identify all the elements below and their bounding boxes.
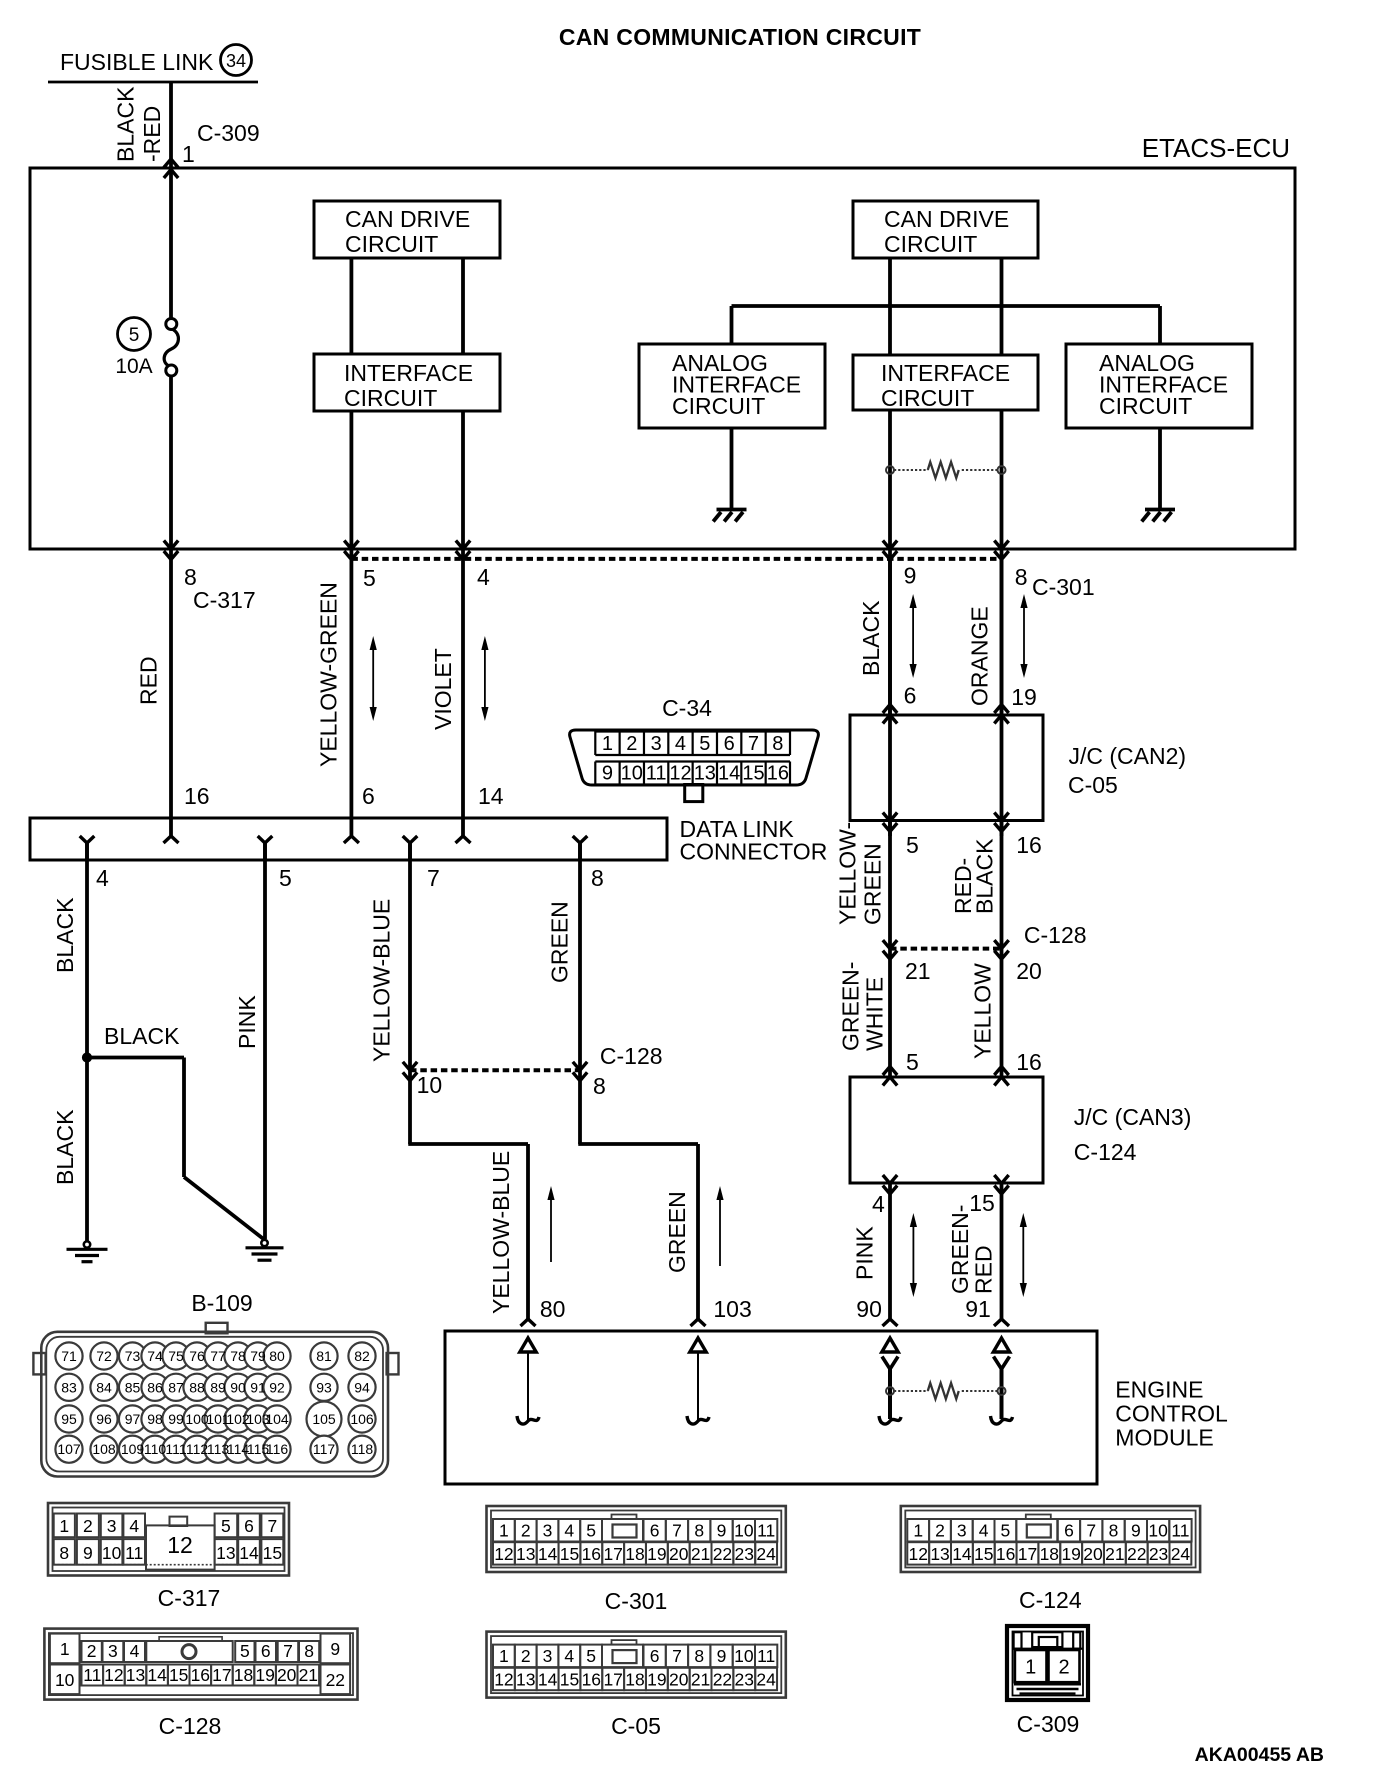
svg-text:5: 5 [906,1049,919,1075]
svg-text:18: 18 [625,1544,644,1564]
svg-text:10A: 10A [115,355,152,378]
svg-text:104: 104 [265,1411,289,1427]
svg-text:99: 99 [168,1411,184,1427]
svg-text:5: 5 [699,733,710,755]
svg-text:76: 76 [189,1348,205,1364]
svg-text:93: 93 [316,1379,332,1395]
svg-text:C-317: C-317 [193,587,256,613]
svg-text:C-301: C-301 [605,1588,668,1614]
svg-text:5: 5 [906,832,919,858]
svg-text:15: 15 [742,763,764,785]
svg-text:WHITE: WHITE [862,977,888,1051]
svg-text:84: 84 [96,1379,112,1395]
svg-text:CIRCUIT: CIRCUIT [345,231,438,257]
svg-text:13: 13 [126,1665,145,1685]
svg-text:20: 20 [669,1670,689,1690]
svg-text:4: 4 [96,865,109,891]
svg-text:80: 80 [540,1296,566,1322]
svg-text:74: 74 [147,1348,163,1364]
svg-text:10: 10 [417,1072,443,1098]
svg-text:13: 13 [930,1544,949,1564]
svg-text:9: 9 [330,1639,340,1659]
svg-text:1: 1 [59,1516,69,1536]
svg-text:98: 98 [147,1411,163,1427]
svg-text:112: 112 [186,1441,209,1457]
svg-text:5: 5 [586,1521,596,1541]
svg-text:14: 14 [478,783,504,809]
svg-text:73: 73 [125,1348,141,1364]
svg-text:6: 6 [1064,1521,1074,1541]
svg-text:YELLOW: YELLOW [969,963,995,1059]
svg-text:83: 83 [61,1379,77,1395]
svg-text:15: 15 [560,1544,579,1564]
svg-text:88: 88 [189,1379,205,1395]
svg-text:C-309: C-309 [1017,1711,1080,1737]
svg-text:J/C (CAN3): J/C (CAN3) [1074,1104,1192,1130]
svg-text:10: 10 [1148,1521,1168,1541]
svg-text:79: 79 [250,1348,266,1364]
svg-text:21: 21 [691,1670,710,1690]
svg-text:14: 14 [538,1670,558,1690]
svg-text:GREEN: GREEN [664,1191,690,1273]
svg-text:12: 12 [494,1544,513,1564]
svg-text:107: 107 [57,1441,81,1457]
svg-text:105: 105 [312,1411,336,1427]
svg-text:PINK: PINK [852,1226,878,1280]
svg-text:C-317: C-317 [158,1585,221,1611]
svg-text:1: 1 [499,1521,509,1541]
svg-text:9: 9 [83,1543,93,1563]
svg-text:17: 17 [603,1670,622,1690]
svg-text:19: 19 [647,1544,666,1564]
svg-text:18: 18 [234,1665,253,1685]
svg-text:8: 8 [694,1646,704,1666]
svg-text:1: 1 [499,1646,509,1666]
svg-text:1: 1 [602,733,613,755]
svg-text:111: 111 [165,1441,186,1457]
svg-text:13: 13 [216,1543,235,1563]
svg-text:3: 3 [543,1521,553,1541]
svg-text:13: 13 [516,1670,535,1690]
svg-text:2: 2 [521,1646,531,1666]
svg-text:82: 82 [354,1348,370,1364]
svg-text:2: 2 [83,1516,93,1536]
svg-text:22: 22 [326,1670,345,1690]
svg-text:10: 10 [55,1670,75,1690]
svg-text:12: 12 [669,763,691,785]
svg-text:PINK: PINK [234,995,260,1049]
svg-text:23: 23 [735,1544,754,1564]
svg-text:4: 4 [675,733,686,755]
svg-text:4: 4 [564,1646,574,1666]
svg-text:8: 8 [694,1521,704,1541]
svg-text:CIRCUIT: CIRCUIT [881,385,974,411]
svg-text:B-109: B-109 [191,1290,252,1316]
svg-text:13: 13 [694,763,716,785]
svg-text:21: 21 [691,1544,710,1564]
svg-text:C-05: C-05 [611,1713,661,1739]
svg-text:103: 103 [713,1296,751,1322]
svg-text:CIRCUIT: CIRCUIT [344,385,437,411]
svg-text:90: 90 [856,1296,882,1322]
svg-text:BLACK: BLACK [113,86,139,162]
svg-text:71: 71 [61,1348,77,1364]
svg-text:7: 7 [267,1516,277,1536]
svg-text:14: 14 [147,1665,167,1685]
svg-text:BLACK: BLACK [858,600,884,676]
svg-text:ENGINE: ENGINE [1115,1377,1203,1403]
svg-text:CONTROL: CONTROL [1115,1401,1228,1427]
svg-text:17: 17 [212,1665,231,1685]
svg-text:86: 86 [147,1379,163,1395]
svg-text:2: 2 [626,733,637,755]
svg-text:GREEN: GREEN [547,901,573,983]
svg-text:118: 118 [351,1441,374,1457]
svg-text:4: 4 [564,1521,574,1541]
svg-text:116: 116 [266,1441,289,1457]
svg-text:4: 4 [130,1641,140,1661]
svg-text:24: 24 [1171,1544,1191,1564]
svg-text:11: 11 [646,763,667,785]
svg-text:16: 16 [184,783,210,809]
svg-text:6: 6 [650,1521,660,1541]
svg-text:16: 16 [582,1544,601,1564]
svg-text:110: 110 [144,1441,167,1457]
svg-text:8: 8 [593,1073,606,1099]
svg-text:7: 7 [283,1641,293,1661]
svg-text:BLACK: BLACK [52,1109,78,1185]
svg-text:80: 80 [269,1348,285,1364]
svg-text:ETACS-ECU: ETACS-ECU [1142,133,1290,163]
svg-text:20: 20 [1083,1544,1103,1564]
svg-text:14: 14 [952,1544,972,1564]
svg-text:24: 24 [756,1544,776,1564]
svg-text:16: 16 [191,1665,210,1685]
svg-text:16: 16 [1016,832,1042,858]
svg-text:9: 9 [717,1646,727,1666]
svg-text:C-128: C-128 [600,1043,663,1069]
svg-text:7: 7 [748,733,759,755]
svg-text:12: 12 [104,1665,123,1685]
svg-text:11: 11 [757,1521,775,1541]
svg-text:1: 1 [60,1639,70,1659]
svg-text:18: 18 [1040,1544,1059,1564]
svg-text:1: 1 [1025,1657,1036,1679]
svg-text:19: 19 [255,1665,274,1685]
svg-text:12: 12 [494,1670,513,1690]
svg-text:15: 15 [263,1543,282,1563]
svg-text:3: 3 [108,1641,118,1661]
svg-text:YELLOW-BLUE: YELLOW-BLUE [488,1151,514,1314]
svg-text:C-301: C-301 [1032,574,1095,600]
svg-text:9: 9 [602,763,613,785]
svg-text:22: 22 [1127,1544,1146,1564]
svg-text:1: 1 [913,1521,923,1541]
svg-text:12: 12 [908,1544,927,1564]
svg-text:19: 19 [647,1670,666,1690]
svg-text:6: 6 [362,783,375,809]
svg-text:87: 87 [168,1379,184,1395]
svg-text:9: 9 [1131,1521,1141,1541]
svg-text:16: 16 [996,1544,1015,1564]
svg-text:22: 22 [713,1544,732,1564]
svg-text:J/C (CAN2): J/C (CAN2) [1069,743,1187,769]
svg-text:2: 2 [935,1521,945,1541]
svg-text:24: 24 [756,1670,776,1690]
svg-text:C-34: C-34 [662,695,712,721]
svg-text:19: 19 [1011,684,1037,710]
svg-text:3: 3 [107,1516,117,1536]
svg-text:3: 3 [543,1646,553,1666]
svg-text:10: 10 [102,1543,122,1563]
svg-text:RED: RED [136,656,162,705]
svg-text:75: 75 [168,1348,184,1364]
svg-text:16: 16 [582,1670,601,1690]
svg-text:16: 16 [1016,1049,1042,1075]
svg-text:C-05: C-05 [1068,772,1118,798]
svg-text:23: 23 [1149,1544,1168,1564]
svg-text:20: 20 [669,1544,689,1564]
svg-text:16: 16 [767,763,789,785]
svg-text:CIRCUIT: CIRCUIT [884,231,977,257]
svg-text:CAN DRIVE: CAN DRIVE [884,206,1009,232]
svg-text:CONNECTOR: CONNECTOR [680,839,828,865]
svg-text:95: 95 [61,1411,77,1427]
svg-text:85: 85 [125,1379,141,1395]
svg-text:AKA00455 AB: AKA00455 AB [1195,1744,1324,1766]
svg-text:72: 72 [96,1348,112,1364]
svg-text:34: 34 [226,51,246,71]
svg-text:C-124: C-124 [1019,1587,1082,1613]
svg-text:5: 5 [221,1516,231,1536]
svg-text:8: 8 [591,865,604,891]
svg-text:4: 4 [477,564,490,590]
svg-text:109: 109 [121,1441,145,1457]
svg-text:CAN DRIVE: CAN DRIVE [345,206,470,232]
svg-text:C-128: C-128 [159,1713,222,1739]
svg-text:10: 10 [734,1521,754,1541]
svg-text:7: 7 [427,865,440,891]
svg-text:6: 6 [724,733,735,755]
svg-text:106: 106 [350,1411,374,1427]
svg-text:108: 108 [92,1441,116,1457]
svg-text:3: 3 [651,733,662,755]
svg-text:15: 15 [974,1544,993,1564]
svg-text:20: 20 [1016,958,1042,984]
svg-text:CAN COMMUNICATION CIRCUIT: CAN COMMUNICATION CIRCUIT [559,24,921,50]
svg-text:5: 5 [129,325,140,346]
svg-text:7: 7 [672,1646,682,1666]
svg-text:91: 91 [250,1379,266,1395]
svg-text:19: 19 [1061,1544,1080,1564]
svg-text:4: 4 [129,1516,139,1536]
svg-text:5: 5 [586,1646,596,1666]
svg-text:11: 11 [1171,1521,1189,1541]
svg-text:23: 23 [735,1670,754,1690]
svg-text:90: 90 [230,1379,246,1395]
svg-text:VIOLET: VIOLET [430,648,456,730]
svg-text:GREEN: GREEN [859,843,885,925]
svg-text:6: 6 [904,683,917,709]
svg-text:91: 91 [965,1296,991,1322]
svg-text:BLACK: BLACK [972,838,998,914]
svg-text:2: 2 [87,1641,97,1661]
svg-text:BLACK: BLACK [104,1023,180,1049]
svg-text:8: 8 [772,733,783,755]
svg-text:12: 12 [167,1532,193,1558]
svg-text:77: 77 [210,1348,226,1364]
svg-text:7: 7 [672,1521,682,1541]
svg-text:13: 13 [516,1544,535,1564]
svg-text:5: 5 [240,1641,250,1661]
svg-text:2: 2 [521,1521,531,1541]
svg-text:1: 1 [182,141,195,167]
svg-text:8: 8 [1015,564,1028,590]
svg-text:YELLOW-GREEN: YELLOW-GREEN [316,582,342,767]
svg-text:CIRCUIT: CIRCUIT [672,393,765,419]
svg-text:5: 5 [1001,1521,1011,1541]
svg-text:8: 8 [1109,1521,1119,1541]
svg-text:21: 21 [1105,1544,1124,1564]
svg-text:C-124: C-124 [1074,1139,1137,1165]
svg-text:14: 14 [239,1543,259,1563]
svg-text:94: 94 [354,1379,370,1395]
svg-text:C-128: C-128 [1024,922,1087,948]
svg-text:4: 4 [979,1521,989,1541]
svg-text:ORANGE: ORANGE [967,606,993,706]
svg-text:96: 96 [96,1411,112,1427]
svg-text:6: 6 [261,1641,271,1661]
svg-text:10: 10 [621,763,643,785]
svg-text:22: 22 [713,1670,732,1690]
svg-text:18: 18 [625,1670,644,1690]
svg-text:6: 6 [650,1646,660,1666]
svg-text:17: 17 [1018,1544,1037,1564]
svg-text:14: 14 [538,1544,558,1564]
svg-text:GREEN-: GREEN- [838,962,864,1051]
svg-text:6: 6 [244,1516,254,1536]
svg-text:15: 15 [560,1670,579,1690]
svg-text:-RED: -RED [139,106,165,162]
svg-text:78: 78 [230,1348,246,1364]
svg-text:11: 11 [83,1665,101,1685]
svg-text:10: 10 [734,1646,754,1666]
svg-text:17: 17 [603,1544,622,1564]
svg-text:FUSIBLE LINK: FUSIBLE LINK [60,49,214,75]
svg-text:CIRCUIT: CIRCUIT [1099,393,1192,419]
svg-text:14: 14 [718,763,740,785]
svg-text:5: 5 [279,865,292,891]
svg-text:RED: RED [971,1245,997,1294]
svg-text:2: 2 [1058,1657,1069,1679]
svg-text:81: 81 [316,1348,332,1364]
svg-text:7: 7 [1086,1521,1096,1541]
svg-text:20: 20 [277,1665,297,1685]
svg-text:9: 9 [904,563,917,589]
svg-text:9: 9 [717,1521,727,1541]
svg-text:8: 8 [304,1641,314,1661]
svg-text:11: 11 [125,1543,143,1563]
svg-text:89: 89 [210,1379,226,1395]
svg-text:INTERFACE: INTERFACE [344,360,473,386]
svg-text:4: 4 [872,1191,885,1217]
svg-text:8: 8 [59,1543,69,1563]
svg-text:MODULE: MODULE [1115,1425,1213,1451]
svg-text:GREEN-: GREEN- [947,1205,973,1294]
svg-text:5: 5 [363,565,376,591]
svg-text:15: 15 [169,1665,188,1685]
svg-text:117: 117 [313,1441,336,1457]
svg-text:21: 21 [905,958,931,984]
svg-text:C-309: C-309 [197,120,260,146]
svg-text:92: 92 [269,1379,285,1395]
svg-text:YELLOW-BLUE: YELLOW-BLUE [369,899,395,1062]
svg-text:3: 3 [957,1521,967,1541]
svg-text:97: 97 [125,1411,141,1427]
svg-text:21: 21 [299,1665,318,1685]
svg-text:11: 11 [757,1646,775,1666]
svg-text:INTERFACE: INTERFACE [881,360,1010,386]
svg-text:YELLOW-: YELLOW- [834,822,860,925]
svg-text:BLACK: BLACK [52,897,78,973]
